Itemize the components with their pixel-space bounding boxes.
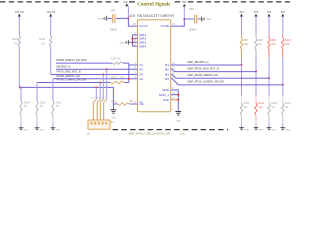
svg-text:GND: GND (244, 130, 249, 132)
svg-text:R97: R97 (244, 39, 249, 42)
svg-text:1V8_P9: 1V8_P9 (15, 11, 24, 14)
svg-text:R106: R106 (39, 38, 46, 41)
wire R111 to ground (52, 116, 54, 126)
resistor R113 0R (OE series) (118, 103, 130, 106)
svg-text:A4: A4 (139, 77, 143, 81)
wire W3 to A3 (51, 74, 138, 76)
svg-text:GND: GND (176, 121, 181, 123)
top dashed border (0, 1, 290, 3)
wire B1 stub+diagonal (171, 64, 242, 66)
wire R110 to ground (36, 116, 38, 126)
svg-text:GND: GND (111, 118, 116, 120)
svg-text:GND: GND (285, 130, 290, 132)
connector pin chevron 4 (102, 122, 104, 125)
bus wire 1 (103, 102, 105, 120)
svg-text:OE: OE (139, 102, 143, 106)
ground (OE) (112, 104, 114, 110)
svg-text:RGMII_DEBUG_EN: RGMII_DEBUG_EN (57, 74, 80, 78)
junction VCCA (127, 17, 129, 19)
wire R99 to junction (268, 49, 270, 57)
resistor R105 NC (18, 36, 21, 47)
svg-text:R101: R101 (244, 102, 251, 105)
wire DIR1 stub (133, 34, 138, 36)
wire B3 stub+diagonal (171, 75, 269, 79)
wire col1 lower (18, 47, 20, 88)
wire col3 lower (268, 78, 270, 95)
svg-text:FPGA_DNG_RST_N: FPGA_DNG_RST_N (57, 70, 81, 74)
junction col1/W6 (19, 86, 21, 88)
svg-text:GND: GND (40, 130, 45, 132)
junction W6/bus drop (95, 86, 97, 88)
wire col1 lower (241, 65, 243, 96)
ground below R101 (239, 126, 244, 129)
svg-text:NC: NC (40, 105, 44, 108)
wire R103 to ground (268, 116, 270, 125)
wire DIR4 stub (133, 45, 138, 47)
svg-text:GND: GND (259, 130, 264, 132)
wire OE left (113, 103, 117, 105)
ground below R102 (254, 126, 259, 129)
svg-text:VCCA: VCCA (139, 24, 147, 28)
junction DIR3 (131, 41, 133, 43)
svg-text:C47: C47 (111, 8, 116, 12)
junction GND_1 (177, 94, 179, 96)
wire junction to VCCA pin (128, 18, 137, 26)
svg-text:R105: R105 (12, 38, 19, 41)
junction W2/bus drop (106, 68, 108, 70)
capacitor C49 100nF (195, 15, 197, 24)
ground below R110 (35, 126, 40, 129)
svg-text:NC: NC (14, 42, 18, 45)
svg-text:U19 SN74AVC4T774RGYR: U19 SN74AVC4T774RGYR (129, 14, 175, 18)
svg-text:3V3: 3V3 (254, 11, 259, 14)
svg-text:R104: R104 (285, 102, 292, 105)
svg-text:R98: R98 (258, 39, 263, 42)
bottom dashed border (113, 129, 229, 131)
junction B2/col2 (255, 71, 257, 73)
svg-text:GND: GND (98, 19, 103, 21)
ground (C47) (103, 16, 106, 21)
wire C49 to ground (198, 18, 202, 20)
svg-text:1V8: 1V8 (180, 132, 185, 136)
wire R113 to OE pin (130, 103, 138, 105)
svg-text:1V8_P9: 1V8_P9 (46, 11, 55, 14)
svg-text:NC: NC (258, 43, 262, 46)
wire W5 (37, 82, 110, 84)
wire W6 rail (19, 87, 113, 104)
svg-text:10K: 10K (271, 43, 276, 46)
svg-text:100nF: 100nF (189, 27, 197, 31)
ground below R103 (267, 126, 272, 129)
svg-text:R107 NC: R107 NC (111, 58, 121, 61)
resistor R103 NC (268, 103, 271, 115)
connector pin chevron 5 (105, 122, 107, 125)
resistor R101 NC (240, 103, 243, 115)
wire right col1 upper (241, 17, 243, 35)
svg-text:0R: 0R (130, 100, 133, 103)
wire right col2 upper (255, 17, 257, 35)
capacitor C47 100nF (113, 14, 115, 23)
svg-text:GND_1: GND_1 (159, 93, 169, 97)
connector pin chevron 3 (98, 122, 100, 125)
resistor R98 NC (255, 38, 258, 50)
svg-text:100nF: 100nF (110, 27, 118, 31)
PAD pin stub (171, 99, 179, 101)
junction DIR2 (131, 38, 133, 40)
wire drop to R109 (20, 87, 22, 100)
wire col2 upper (50, 17, 52, 36)
wire W4 to A4 (53, 78, 138, 80)
wire DIR ground stub (128, 41, 132, 43)
svg-text:PAD: PAD (163, 98, 170, 102)
svg-text:NC: NC (244, 106, 248, 109)
wire DIR2 stub (133, 38, 138, 40)
IC U19 SN74AVC4T774 body (138, 20, 171, 112)
wire col2 to W3 (50, 47, 52, 75)
junction B4/col4 (282, 84, 284, 86)
resistor R104 NC (282, 103, 285, 115)
svg-text:GND: GND (272, 130, 277, 132)
svg-text:3V3: 3V3 (281, 11, 286, 14)
svg-text:DEVRST_N: DEVRST_N (57, 64, 71, 68)
wire gnd-C47 (107, 17, 112, 19)
wire junction to C49 (184, 18, 193, 20)
svg-text:P3: P3 (92, 98, 94, 100)
bus entry diagonal 2 (100, 99, 103, 102)
svg-text:GND: GND (206, 19, 211, 21)
wire R107 to DIR bus (123, 62, 129, 64)
svg-text:GND: GND (162, 88, 170, 92)
wire right col4 upper (282, 17, 284, 35)
wire col1 upper (18, 17, 20, 36)
svg-text:1V8_P: 1V8_P (123, 1, 131, 4)
svg-text:NC: NC (24, 105, 28, 108)
svg-text:10K: 10K (244, 43, 249, 46)
svg-text:NC: NC (56, 105, 60, 108)
connector box (88, 120, 110, 129)
svg-text:3V3: 3V3 (267, 11, 272, 14)
svg-text:NC: NC (42, 42, 46, 45)
wire C47-junction (116, 17, 128, 19)
svg-text:Control Signals: Control Signals (137, 1, 170, 7)
junction W5/bus drop (99, 81, 101, 83)
svg-text:R100: R100 (285, 39, 292, 42)
bus entry diagonal 4 (93, 99, 96, 102)
svg-text:B2: B2 (165, 67, 169, 71)
svg-text:MSP_FPGA_DNG_RST_N: MSP_FPGA_DNG_RST_N (188, 66, 219, 70)
bus wire 3 (96, 102, 98, 120)
resistor R110 NC (36, 101, 39, 116)
ground (chip) (175, 112, 181, 116)
svg-text:0R: 0R (120, 76, 123, 79)
wire GND pin (171, 90, 179, 111)
junction B1/col1 (240, 64, 242, 66)
svg-text:3V3: 3V3 (182, 1, 187, 4)
svg-text:C49: C49 (189, 7, 194, 11)
svg-text:FPGA_CONFIG_SPI_EN: FPGA_CONFIG_SPI_EN (57, 78, 86, 82)
wire R109 to ground (20, 116, 22, 126)
wire B2 stub+diagonal (171, 69, 256, 71)
svg-text:R103: R103 (271, 102, 278, 105)
wire bus drop 4 (95, 87, 97, 99)
wire VCCB pin to junction (171, 19, 185, 26)
resistor R100 10K (282, 38, 285, 50)
wire R98 to junction (255, 49, 257, 57)
wire DIR3 stub (133, 41, 138, 43)
resistor R102 10K (255, 103, 258, 115)
resistor R111 NC (52, 101, 55, 116)
wire right col3 upper (268, 17, 270, 35)
svg-text:A2: A2 (139, 67, 143, 71)
junction W3/bus drop (102, 73, 104, 75)
svg-text:VCCB: VCCB (161, 24, 169, 28)
wire bus drop 1 (106, 69, 108, 99)
wire bus drop 2 (102, 75, 104, 100)
resistor R99 10K (268, 38, 271, 50)
wire drop to R111 (52, 79, 54, 101)
resistor R109 NC (20, 101, 23, 116)
svg-text:NC: NC (271, 106, 275, 109)
svg-text:MSP_RGMII_DEBUG_EN: MSP_RGMII_DEBUG_EN (188, 73, 218, 77)
wire R104 to ground (282, 116, 284, 125)
ground (C49) (201, 17, 204, 22)
wire bus drop 3 (99, 83, 101, 100)
svg-text:R109: R109 (24, 101, 31, 104)
svg-text:R112: R112 (111, 76, 117, 79)
svg-text:3V3: 3V3 (239, 11, 244, 14)
wire W5 to tie vertical (124, 82, 128, 84)
svg-text:R99: R99 (271, 39, 276, 42)
bus wire 4 (92, 102, 94, 120)
svg-text:MSP_FPGA_CTRL_SIGNALS_1V8: MSP_FPGA_CTRL_SIGNALS_1V8 (129, 132, 171, 136)
junction B3/col3 (268, 77, 270, 79)
wire col4 lower (282, 85, 284, 96)
svg-text:GND: GND (119, 43, 124, 45)
wire W1 (56, 62, 112, 64)
svg-text:R110: R110 (40, 101, 46, 104)
resistor R106 NC (49, 36, 52, 47)
bus entry diagonal 1 (104, 99, 107, 102)
svg-text:GND: GND (55, 130, 60, 132)
connector pin chevron 1 (90, 122, 92, 125)
svg-text:R113: R113 (111, 100, 117, 103)
wire B4 stub+diagonal (171, 79, 283, 85)
svg-text:NC: NC (285, 106, 289, 109)
svg-text:2N: 2N (87, 133, 90, 136)
svg-text:RGMII_DEBUG_EN_ENG: RGMII_DEBUG_EN_ENG (57, 58, 87, 62)
wire drop to R110 (36, 83, 38, 101)
ground below R111 (51, 126, 56, 129)
ground below R109 (19, 126, 24, 129)
svg-text:GND: GND (24, 130, 29, 132)
svg-text:MSP_FPGA_CONFIG_SPI_EN: MSP_FPGA_CONFIG_SPI_EN (188, 80, 224, 84)
resistor R107 NC (series) (112, 62, 123, 65)
connector pin chevron 2 (94, 122, 96, 125)
svg-text:R102: R102 (258, 102, 265, 105)
svg-text:10K: 10K (285, 43, 290, 46)
wire R97 to junction (241, 49, 243, 57)
svg-text:MSP_DEVRST_N: MSP_DEVRST_N (188, 60, 209, 64)
bus wire 2 (99, 102, 101, 120)
ground below R104 (281, 126, 286, 129)
resistor R112 0R (series) (110, 81, 124, 84)
svg-text:10K: 10K (258, 106, 263, 109)
wire elbow down to A1 + tie vertical (128, 63, 130, 82)
resistor R97 10K (240, 38, 243, 50)
bus entry diagonal 3 (97, 99, 100, 102)
ground (DIR tie) (125, 40, 128, 45)
svg-text:R111: R111 (56, 101, 62, 104)
wire W2 to A2 (56, 68, 138, 70)
wire R102 to ground (255, 116, 257, 125)
wire R101 to ground (241, 116, 243, 125)
wire GND_1 pin (171, 94, 179, 96)
svg-text:B4: B4 (165, 77, 169, 81)
junction PAD (177, 99, 179, 101)
wire R100 to junction (282, 49, 284, 57)
wire col2 lower (255, 72, 257, 96)
junction W4/rail rise (128, 78, 130, 80)
wire DIR bracket vertical (132, 35, 134, 46)
junction VCCB (183, 18, 185, 20)
svg-text:DIR4: DIR4 (139, 44, 146, 48)
